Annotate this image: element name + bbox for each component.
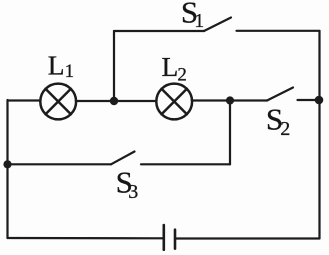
- svg-text:L: L: [48, 50, 65, 81]
- svg-text:1: 1: [65, 61, 75, 82]
- node C junction dot (right wire / S2 contact): [315, 96, 324, 105]
- wire: between L1 and L2: [76, 100, 156, 102]
- wire: left vertical side: [6, 100, 8, 238]
- wire: bottom left to battery: [8, 237, 164, 240]
- svg-text:L: L: [162, 51, 179, 82]
- label L1: [48, 50, 74, 82]
- node A junction dot: [110, 97, 118, 105]
- svg-text:3: 3: [128, 181, 138, 203]
- label S1: [181, 0, 204, 32]
- switch S3 blade: [111, 152, 135, 165]
- svg-text:2: 2: [280, 118, 290, 140]
- wire: L2 to switch S2 pivot: [192, 99, 267, 101]
- wire: top-left horizontal to L1: [8, 99, 41, 101]
- wire: S3 branch left segment: [8, 163, 112, 165]
- label S3: [116, 165, 139, 204]
- svg-text:1: 1: [194, 10, 204, 32]
- switch S1 fixed contact: [237, 30, 320, 32]
- battery negative plate (short): [174, 230, 177, 249]
- switch S2 blade: [267, 88, 293, 101]
- switch S2 fixed contact: [298, 99, 320, 101]
- wire: right vertical side: [318, 31, 320, 238]
- node D junction dot (left wire / S3 branch): [3, 160, 11, 168]
- node B junction dot: [226, 96, 234, 104]
- label L2: [162, 51, 187, 85]
- label S2: [266, 102, 290, 141]
- battery positive plate (long): [163, 225, 166, 250]
- wire: S3 branch vertical up to node B: [229, 100, 231, 164]
- lamp L2: [156, 84, 192, 120]
- lamp L1: [40, 84, 76, 120]
- switch S3 fixed contact: [141, 163, 230, 165]
- wire: top horizontal to switch S1 pivot: [114, 30, 204, 32]
- wire: branch vertical from node A up: [113, 31, 115, 100]
- switch S1 blade: [204, 18, 231, 32]
- wire: battery to bottom right: [175, 237, 320, 239]
- svg-text:2: 2: [177, 64, 187, 85]
